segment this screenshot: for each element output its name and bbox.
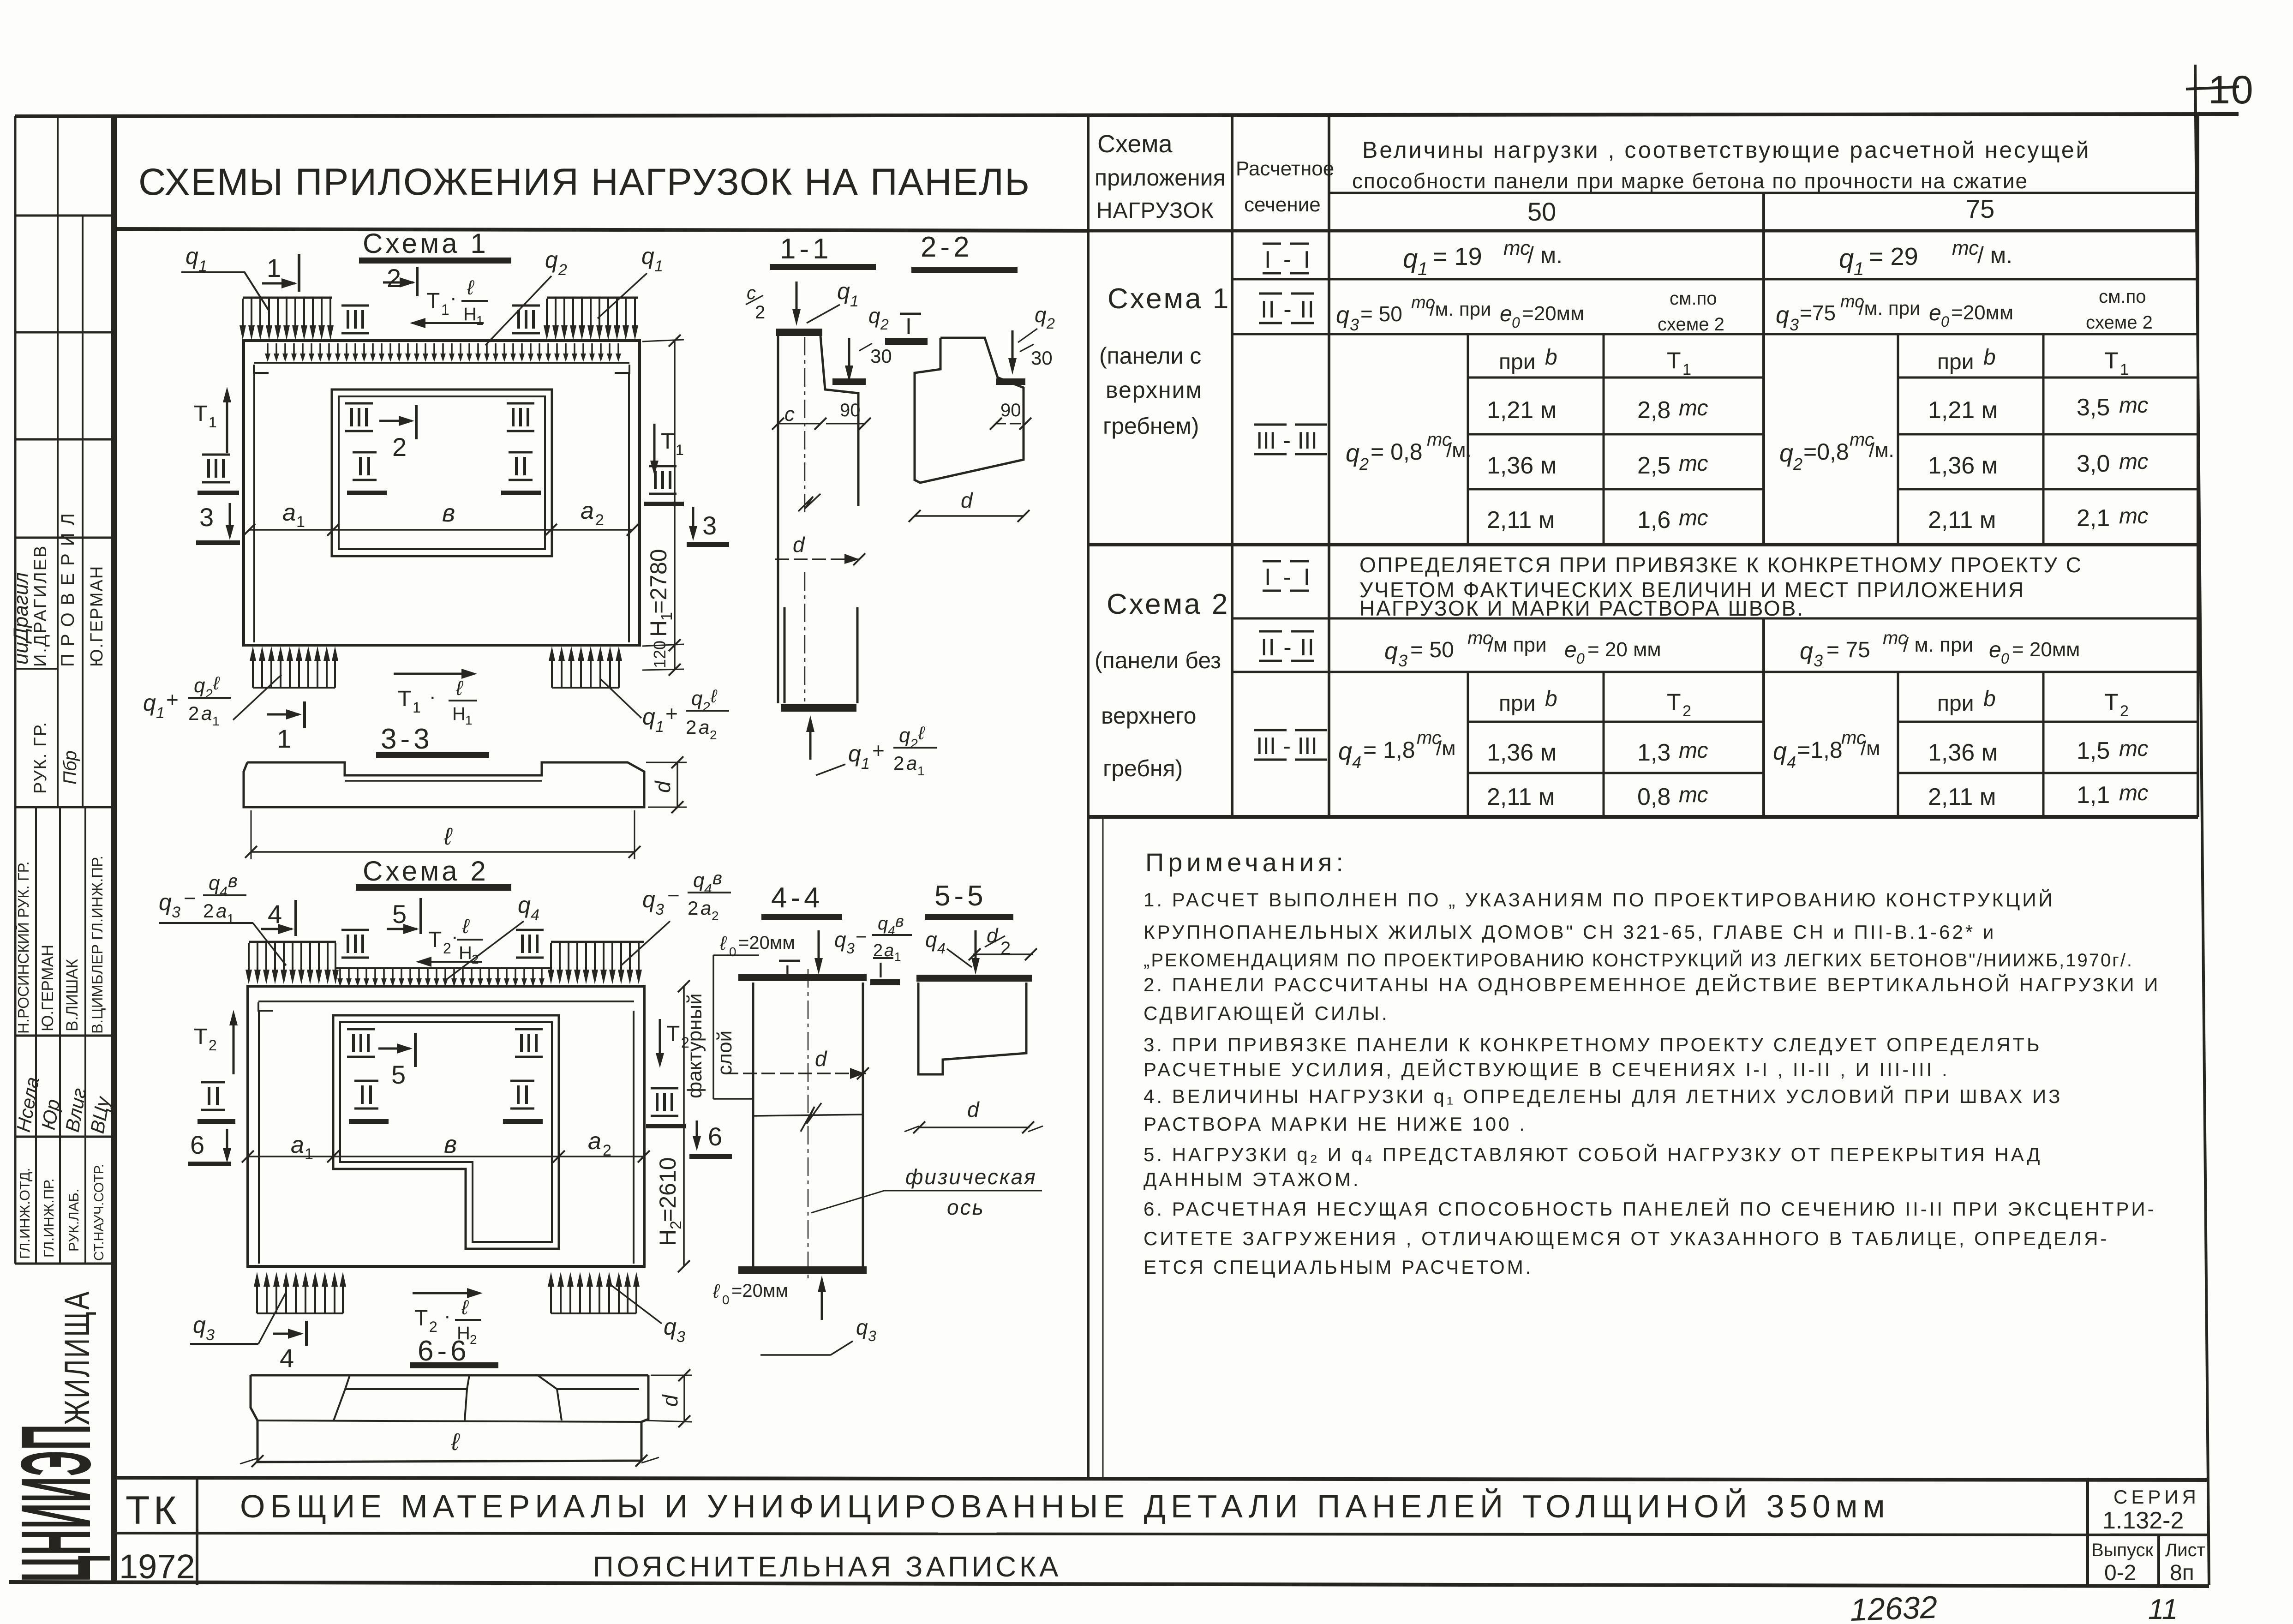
svg-text:3: 3: [1814, 651, 1823, 670]
svg-text:1: 1: [1418, 259, 1428, 279]
svg-text:2: 2: [204, 687, 213, 702]
top bar: [916, 975, 1032, 982]
schema1 prib header bottom: [1468, 377, 1764, 379]
svg-text:=2610: =2610: [655, 1157, 681, 1222]
svg-text:2: 2: [702, 700, 710, 715]
svg-text:d: d: [967, 1097, 980, 1121]
svg-text:+: +: [166, 688, 179, 712]
svg-text:50: 50: [1527, 197, 1556, 226]
svg-text:Т: Т: [398, 687, 411, 711]
schema1 data row lines: [1468, 433, 1764, 436]
H2 dimension line: [683, 986, 685, 1266]
svg-text:СХЕМЫ ПРИЛОЖЕНИЯ НАГРУЗОК Н: СХЕМЫ ПРИЛОЖЕНИЯ НАГРУЗОК НА ПАНЕЛЬ: [138, 161, 1030, 203]
svg-text:1: 1: [267, 253, 281, 282]
svg-text:2. ПАНЕЛИ РАССЧИТАНЫ НА ОДН: 2. ПАНЕЛИ РАССЧИТАНЫ НА ОДНОВРЕМЕННОЕ ДЕ…: [1144, 973, 2160, 995]
svg-text:тс: тс: [1503, 237, 1530, 259]
svg-text:q: q: [545, 247, 558, 273]
svg-text:ℓ: ℓ: [719, 932, 727, 954]
svg-text:ЕТСЯ СПЕЦИАЛЬНЫМ РАСЧЕТОМ.: ЕТСЯ СПЕЦИАЛЬНЫМ РАСЧЕТОМ.: [1144, 1256, 1533, 1278]
svg-text:3: 3: [677, 1328, 685, 1346]
svg-text:/ м. при: / м. при: [1903, 634, 1973, 656]
2-2 profile: [915, 338, 1024, 483]
svg-text:=20мм: =20мм: [1522, 302, 1584, 325]
svg-text:тс: тс: [1679, 396, 1708, 420]
svg-text:5-5: 5-5: [934, 880, 987, 912]
svg-text:d: d: [793, 533, 805, 557]
svg-text:8п: 8п: [2170, 1561, 2194, 1585]
svg-text:= 20 мм: = 20 мм: [1587, 638, 1661, 661]
svg-text:4: 4: [937, 940, 946, 957]
svg-text:1: 1: [441, 301, 449, 318]
svg-text:Т: Т: [1667, 689, 1681, 715]
svg-text:ОПРЕДЕЛЯЕТСЯ ПРИ ПРИВЯЗКЕ К: ОПРЕДЕЛЯЕТСЯ ПРИ ПРИВЯЗКЕ К КОНКРЕТНОМУ …: [1359, 553, 2083, 577]
svg-text:при: при: [1499, 350, 1536, 374]
svg-text:Схема 1: Схема 1: [363, 228, 489, 259]
svg-text:q: q: [193, 1312, 206, 1338]
svg-text:= 50: = 50: [1360, 302, 1402, 326]
svg-text:1: 1: [277, 724, 291, 753]
svg-text:при: при: [1499, 691, 1536, 716]
svg-text:Величины нагрузки , соответст: Величины нагрузки , соответствующие расч…: [1362, 137, 2091, 163]
inner L-shaped ridge: [333, 1015, 559, 1249]
svg-text:в: в: [444, 1131, 457, 1158]
svg-text:НАГРУЗОК И МАРКИ РАСТВОРА: НАГРУЗОК И МАРКИ РАСТВОРА ШВОВ.: [1359, 596, 1804, 620]
H1 dimension line: [674, 341, 676, 670]
bottom center T1 l/H1 with right arrow: [394, 673, 473, 675]
svg-text:q: q: [1773, 737, 1787, 765]
section mark 4 bottom: [273, 1333, 301, 1335]
svg-text:−: −: [667, 883, 680, 907]
svg-text:1: 1: [2120, 361, 2129, 378]
svg-text:2: 2: [1359, 455, 1369, 473]
svg-text:6. РАСЧЕТНАЯ НЕСУЩАЯ СПОСОБН: 6. РАСЧЕТНАЯ НЕСУЩАЯ СПОСОБНОСТЬ ПАНЕЛЕЙ…: [1144, 1198, 2156, 1220]
svg-text:1,5: 1,5: [2077, 737, 2110, 764]
6-6 l dimension: [251, 1455, 263, 1467]
svg-text:ℓ: ℓ: [461, 1296, 469, 1319]
break zigzag: [798, 494, 820, 511]
svg-text:0: 0: [1512, 314, 1520, 331]
left II mark: [201, 1082, 225, 1110]
bottom reaction block right: [549, 646, 555, 688]
svg-text:приложения: приложения: [1095, 165, 1226, 191]
svg-text:ДАННЫМ ЭТАЖОМ.: ДАННЫМ ЭТАЖОМ.: [1144, 1169, 1361, 1190]
svg-text:при: при: [1937, 350, 1974, 374]
svg-text:q: q: [868, 304, 880, 328]
svg-text:=20мм: =20мм: [731, 1281, 788, 1301]
svg-text:q: q: [159, 889, 172, 915]
svg-text:тс: тс: [1679, 506, 1708, 530]
svg-text:в: в: [442, 499, 455, 527]
svg-text:=2780: =2780: [646, 549, 671, 614]
svg-text:фактурный: фактурный: [683, 993, 706, 1098]
svg-text:a: a: [282, 499, 296, 526]
svg-text:ℓ: ℓ: [710, 686, 718, 707]
svg-text:ось: ось: [947, 1195, 985, 1219]
svg-text:/м при: /м при: [1488, 634, 1547, 656]
svg-text:+: +: [665, 701, 678, 725]
svg-text:ОБЩИЕ МАТЕРИАЛЫ И УНИФИЦИРО: ОБЩИЕ МАТЕРИАЛЫ И УНИФИЦИРОВАННЫЕ ДЕТАЛИ…: [240, 1488, 1890, 1524]
sidebar lower 4-col dividers: [35, 807, 37, 1264]
svg-text:Н.РОСИНСКИЙ РУК. ГР.: Н.РОСИНСКИЙ РУК. ГР.: [15, 861, 32, 1034]
svg-text:3-3: 3-3: [381, 723, 433, 755]
svg-text:b: b: [1983, 345, 1996, 370]
svg-text:I: I: [878, 958, 884, 982]
svg-text:−: −: [856, 926, 867, 947]
svg-text:2: 2: [710, 728, 717, 742]
svg-text:q: q: [664, 1314, 677, 1340]
svg-text:2: 2: [188, 702, 199, 724]
svg-text:q: q: [518, 892, 531, 918]
schema2 I-I row bottom: [1232, 617, 2198, 620]
svg-text:1: 1: [212, 714, 220, 728]
schema1 block bottom: [1088, 543, 2198, 546]
right border: [2195, 65, 2209, 1585]
svg-text:4: 4: [1352, 753, 1361, 772]
svg-text:гребнем): гребнем): [1103, 413, 1199, 439]
svg-text:Т: Т: [194, 402, 207, 426]
svg-text:1: 1: [1682, 361, 1691, 378]
svg-text:b: b: [1545, 345, 1557, 370]
svg-text:2: 2: [755, 302, 765, 323]
svg-text:q: q: [691, 687, 703, 710]
svg-text:ℓ: ℓ: [443, 823, 453, 850]
svg-text:1: 1: [1854, 259, 1864, 279]
svg-text:способности панели при марк: способности панели при марке бетона по п…: [1352, 169, 2028, 193]
svg-text:4. ВЕЛИЧИНЫ НАГРУЗКИ q₁ ОПР: 4. ВЕЛИЧИНЫ НАГРУЗКИ q₁ ОПРЕДЕЛЕНЫ ДЛЯ Л…: [1144, 1085, 2063, 1107]
svg-text:q: q: [693, 869, 705, 892]
svg-text:4: 4: [268, 899, 282, 929]
svg-text:2,8: 2,8: [1637, 397, 1670, 424]
svg-text:Схема 2: Схема 2: [363, 856, 489, 887]
svg-text:·: ·: [429, 685, 436, 708]
svg-text:2,11 м: 2,11 м: [1487, 507, 1555, 533]
svg-text:=1,8: =1,8: [1797, 737, 1843, 763]
svg-text:1-1: 1-1: [780, 233, 832, 265]
svg-text:СТ.НАУЧ.СОТР.: СТ.НАУЧ.СОТР.: [92, 1164, 107, 1261]
I-I mark schema1: [1263, 244, 1313, 273]
svg-text:5. НАГРУЗКИ q₂ И q₄ ПРЕДСТ: 5. НАГРУЗКИ q₂ И q₄ ПРЕДСТАВЛЯЮТ СОБОЙ Н…: [1144, 1143, 2042, 1165]
schema2 prib header bottom: [1468, 721, 1764, 723]
svg-text:/м.: /м.: [1446, 439, 1472, 461]
svg-text:1,21 м: 1,21 м: [1487, 397, 1557, 424]
svg-text:3: 3: [868, 1328, 876, 1344]
panel outline schema1: [244, 341, 640, 645]
svg-text:a: a: [699, 716, 709, 738]
svg-text:q: q: [1384, 638, 1398, 665]
svg-text:a: a: [201, 702, 212, 724]
right q1 load block: [547, 297, 638, 299]
sidebar col divider upper: [57, 116, 59, 807]
svg-text:2: 2: [1682, 702, 1691, 720]
svg-text:I: I: [784, 961, 790, 985]
svg-text:1: 1: [655, 718, 664, 736]
svg-text:3,0: 3,0: [2077, 450, 2110, 477]
svg-text:сечение: сечение: [1244, 193, 1321, 216]
svg-text:3. ПРИ ПРИВЯЗКЕ ПАНЕЛИ К К: 3. ПРИ ПРИВЯЗКЕ ПАНЕЛИ К КОНКРЕТНОМУ ПРО…: [1144, 1034, 2042, 1055]
right q3 load block schema2: [551, 941, 644, 943]
svg-text:1: 1: [676, 442, 684, 458]
svg-text:схеме 2: схеме 2: [2086, 312, 2153, 333]
svg-text:ГЛ.ИНЖ.ОТД.: ГЛ.ИНЖ.ОТД.: [17, 1168, 33, 1259]
svg-text:2: 2: [429, 1318, 437, 1335]
svg-text:КРУПНОПАНЕЛЬНЫХ ЖИЛЫХ ДОМОВ": КРУПНОПАНЕЛЬНЫХ ЖИЛЫХ ДОМОВ" СН 321-65, …: [1144, 921, 1996, 943]
svg-text:=20мм: =20мм: [738, 933, 795, 953]
svg-text:a: a: [581, 497, 594, 524]
svg-text:Ю.ГЕРМАН: Ю.ГЕРМАН: [87, 565, 107, 667]
svg-text:a: a: [216, 900, 227, 922]
II marks inside: [354, 1081, 378, 1109]
left border: [14, 116, 17, 1264]
svg-text:тс: тс: [2119, 449, 2148, 474]
svg-text:1: 1: [894, 950, 901, 964]
svg-text:2,1: 2,1: [2077, 505, 2110, 532]
svg-text:q: q: [186, 243, 198, 269]
svg-text:1: 1: [476, 313, 484, 328]
svg-text:I - I: I - I: [1264, 564, 1313, 591]
svg-text:ВЦу: ВЦу: [86, 1094, 114, 1135]
svg-text:тс: тс: [1679, 451, 1708, 476]
svg-text:4: 4: [1787, 753, 1796, 772]
III-III mark schema2: [1254, 730, 1327, 760]
svg-text:q: q: [1800, 638, 1813, 665]
svg-text:/м: /м: [1861, 737, 1880, 760]
svg-text:q: q: [925, 928, 937, 952]
horizontal dimension line schema1: [249, 529, 633, 531]
svg-text:120: 120: [650, 641, 669, 668]
svg-text:= 29: = 29: [1869, 243, 1918, 270]
svg-text:q: q: [642, 704, 655, 730]
svg-text:1: 1: [296, 513, 305, 531]
svg-text:3: 3: [1398, 651, 1407, 670]
svg-text:Схема 1: Схема 1: [1108, 283, 1230, 315]
svg-text:Н: Н: [655, 1229, 681, 1246]
svg-text:·: ·: [450, 287, 457, 309]
svg-text:2: 2: [910, 737, 918, 752]
svg-text:q: q: [1346, 439, 1359, 467]
svg-text:−: −: [184, 886, 196, 910]
fakturny sloy bracket + label: [713, 954, 759, 956]
section mark 1 bottom: [267, 713, 299, 716]
svg-text:тс: тс: [2119, 393, 2148, 418]
svg-text:2: 2: [203, 900, 214, 922]
svg-text:5: 5: [392, 899, 407, 929]
svg-text:Т: Т: [2104, 689, 2119, 715]
svg-text:q: q: [834, 928, 846, 952]
inner ridge rectangle: [332, 390, 552, 556]
svg-text:c: c: [784, 403, 795, 425]
svg-text:ЖИЛИЩА: ЖИЛИЩА: [58, 1290, 97, 1425]
svg-text:e: e: [1564, 638, 1577, 662]
6-6 profile: [251, 1374, 648, 1377]
right side labels schema2: [659, 1019, 661, 1058]
svg-text:3: 3: [655, 901, 664, 918]
top bar: [738, 974, 867, 981]
q3 arrow down: [814, 930, 823, 975]
top platband bar: [776, 329, 822, 336]
svg-text:Н: Н: [646, 620, 671, 637]
svg-text:= 1,8: = 1,8: [1363, 737, 1415, 763]
svg-text:1: 1: [861, 755, 870, 773]
svg-text:1.132-2: 1.132-2: [2102, 1507, 2184, 1534]
svg-text:q: q: [1403, 244, 1418, 274]
svg-text:3: 3: [172, 904, 180, 921]
svg-text:НАГРУЗОК: НАГРУЗОК: [1096, 198, 1214, 223]
bottom reaction block right schema2: [548, 1272, 554, 1313]
svg-text:q: q: [209, 872, 220, 894]
q4 arrow down: [971, 930, 980, 975]
svg-text:Н: Н: [459, 943, 472, 963]
svg-text:/м. при: /м. при: [1859, 297, 1920, 319]
svg-text:3,5: 3,5: [2077, 394, 2110, 421]
svg-text:q: q: [1839, 244, 1854, 274]
svg-text:тс: тс: [2119, 781, 2148, 805]
svg-text:0-2: 0-2: [2104, 1561, 2136, 1585]
svg-text:РУК.ЛАБ.: РУК.ЛАБ.: [66, 1189, 82, 1252]
svg-text:3: 3: [846, 940, 855, 957]
svg-text:1,36 м: 1,36 м: [1487, 452, 1557, 479]
schema2 II-II row bottom: [1232, 671, 2198, 673]
svg-text:Т: Т: [1667, 348, 1681, 373]
svg-text:q: q: [1776, 302, 1789, 329]
svg-text:a: a: [906, 752, 917, 774]
svg-text:ℓ: ℓ: [213, 673, 220, 694]
svg-text:b: b: [1983, 687, 1996, 711]
svg-text:10: 10: [2208, 68, 2254, 112]
svg-text:тс: тс: [2119, 504, 2148, 528]
svg-text:I - I: I - I: [1264, 246, 1313, 273]
svg-text:a: a: [588, 1128, 601, 1155]
schema1 II-II row bottom: [1232, 333, 2198, 336]
svg-text:ℓ: ℓ: [451, 1429, 460, 1456]
bottom reaction block left schema2: [254, 1272, 260, 1313]
svg-text:q: q: [1035, 303, 1047, 327]
section mark 5 inside: [378, 1048, 410, 1050]
svg-text:тс: тс: [1952, 237, 1979, 259]
svg-text:2: 2: [209, 1037, 217, 1054]
svg-text:e: e: [1500, 302, 1512, 326]
horizontal dimension line schema2: [248, 1156, 644, 1157]
svg-text:11: 11: [2148, 1594, 2178, 1624]
svg-text:90: 90: [1000, 400, 1021, 420]
svg-text:1: 1: [305, 1145, 313, 1163]
svg-text:/м. при: /м. при: [1430, 298, 1491, 320]
svg-text:2,11 м: 2,11 м: [1928, 507, 1996, 533]
svg-text:2: 2: [470, 1332, 477, 1347]
svg-text:1: 1: [465, 713, 473, 727]
svg-text:3: 3: [1790, 315, 1799, 334]
svg-text:= 50: = 50: [1410, 638, 1454, 662]
svg-text:2: 2: [686, 716, 696, 738]
svg-text:ℓ: ℓ: [467, 276, 474, 299]
svg-text:Т: Т: [428, 928, 442, 952]
q1 arrow down: [792, 282, 801, 326]
svg-text:слой: слой: [713, 1031, 736, 1075]
svg-text:1,36 м: 1,36 м: [1928, 452, 1998, 479]
svg-text:2: 2: [712, 909, 719, 923]
1-1 section outline: [777, 336, 779, 703]
3-3 d dimension: [646, 762, 687, 763]
svg-text:1,3: 1,3: [1637, 739, 1670, 766]
svg-text:2: 2: [880, 316, 889, 333]
svg-text:75: 75: [1966, 194, 1994, 223]
left q1 load block: [243, 297, 332, 299]
svg-text:e: e: [1989, 638, 2001, 662]
svg-text:2,11 м: 2,11 м: [1928, 784, 1996, 810]
svg-text:Примечания:: Примечания:: [1145, 848, 1347, 877]
3-3 l dimension: [251, 810, 252, 859]
svg-text:2,11 м: 2,11 м: [1487, 784, 1555, 810]
svg-text:РАСЧЕТНЫЕ УСИЛИЯ, ДЕЙСТВУЮЩИЕ: РАСЧЕТНЫЕ УСИЛИЯ, ДЕЙСТВУЮЩИЕ В СЕЧЕНИЯХ…: [1144, 1058, 1950, 1080]
small dims under stem: [778, 423, 820, 425]
svg-text:Выпуск: Выпуск: [2091, 1540, 2154, 1560]
sidebar horizontal dividers: [15, 215, 114, 217]
svg-text:q: q: [642, 887, 655, 912]
svg-text:ТК: ТК: [126, 1488, 180, 1533]
svg-text:в: в: [712, 868, 722, 888]
panel outline schema2: [248, 986, 644, 1266]
svg-text:2-2: 2-2: [921, 231, 973, 263]
drawing/table vertical separator: [1087, 115, 1090, 1478]
svg-text:90: 90: [840, 400, 861, 420]
section mark 2 inside: [379, 420, 412, 422]
svg-text:3: 3: [702, 511, 717, 540]
title divider line: [117, 229, 1087, 231]
svg-text:СЕРИЯ: СЕРИЯ: [2113, 1486, 2200, 1508]
svg-text:Т: Т: [661, 429, 674, 454]
svg-text:= 0,8: = 0,8: [1371, 439, 1423, 465]
svg-text:d: d: [658, 1394, 682, 1407]
svg-text:d: d: [987, 924, 999, 947]
svg-text:1972: 1972: [119, 1547, 195, 1586]
svg-text:=20мм: =20мм: [1951, 301, 2013, 324]
svg-text:1,36 м: 1,36 м: [1928, 739, 1998, 766]
left q3 load block schema2: [249, 941, 336, 943]
svg-text:6-6: 6-6: [418, 1335, 470, 1367]
svg-text:2: 2: [558, 261, 567, 279]
svg-text:(панели с: (панели с: [1099, 343, 1201, 369]
svg-text:Схема: Схема: [1097, 130, 1173, 158]
svg-text:РУК. ГР.: РУК. ГР.: [31, 721, 50, 794]
svg-text:ℓ: ℓ: [918, 723, 925, 743]
svg-text:0: 0: [2001, 650, 2009, 667]
bottom bar: [738, 1266, 867, 1274]
dense q4 arrows row schema2: [337, 968, 545, 987]
svg-text:q: q: [848, 741, 861, 767]
svg-text:Н: Н: [463, 304, 477, 324]
inner top edge schema2: [258, 1002, 273, 1011]
svg-text:1: 1: [156, 704, 165, 722]
svg-text:ПРОВЕРИЛ: ПРОВЕРИЛ: [58, 506, 78, 667]
svg-text:=75: =75: [1800, 301, 1836, 325]
header 50/75 divider: [1329, 192, 2198, 194]
svg-text:q: q: [899, 724, 910, 747]
svg-text:ℓ: ℓ: [712, 1280, 720, 1302]
svg-text:Т: Т: [426, 289, 440, 313]
sidebar right thick edge: [111, 115, 117, 1584]
5-5 profile: [918, 983, 1026, 1074]
bottom reaction block left: [250, 646, 256, 688]
svg-text:q: q: [1779, 439, 1793, 467]
svg-text:схеме 2: схеме 2: [1658, 314, 1724, 335]
svg-text:q: q: [878, 913, 888, 934]
svg-text:ℓ: ℓ: [462, 915, 470, 938]
6-6 d dimension: [651, 1375, 692, 1376]
header bottom: [1088, 229, 2198, 233]
svg-text:2: 2: [1000, 938, 1011, 959]
svg-text:III - III: III - III: [1256, 733, 1317, 760]
svg-text:2: 2: [688, 897, 698, 919]
schema2 data row lines: [1468, 772, 1764, 774]
